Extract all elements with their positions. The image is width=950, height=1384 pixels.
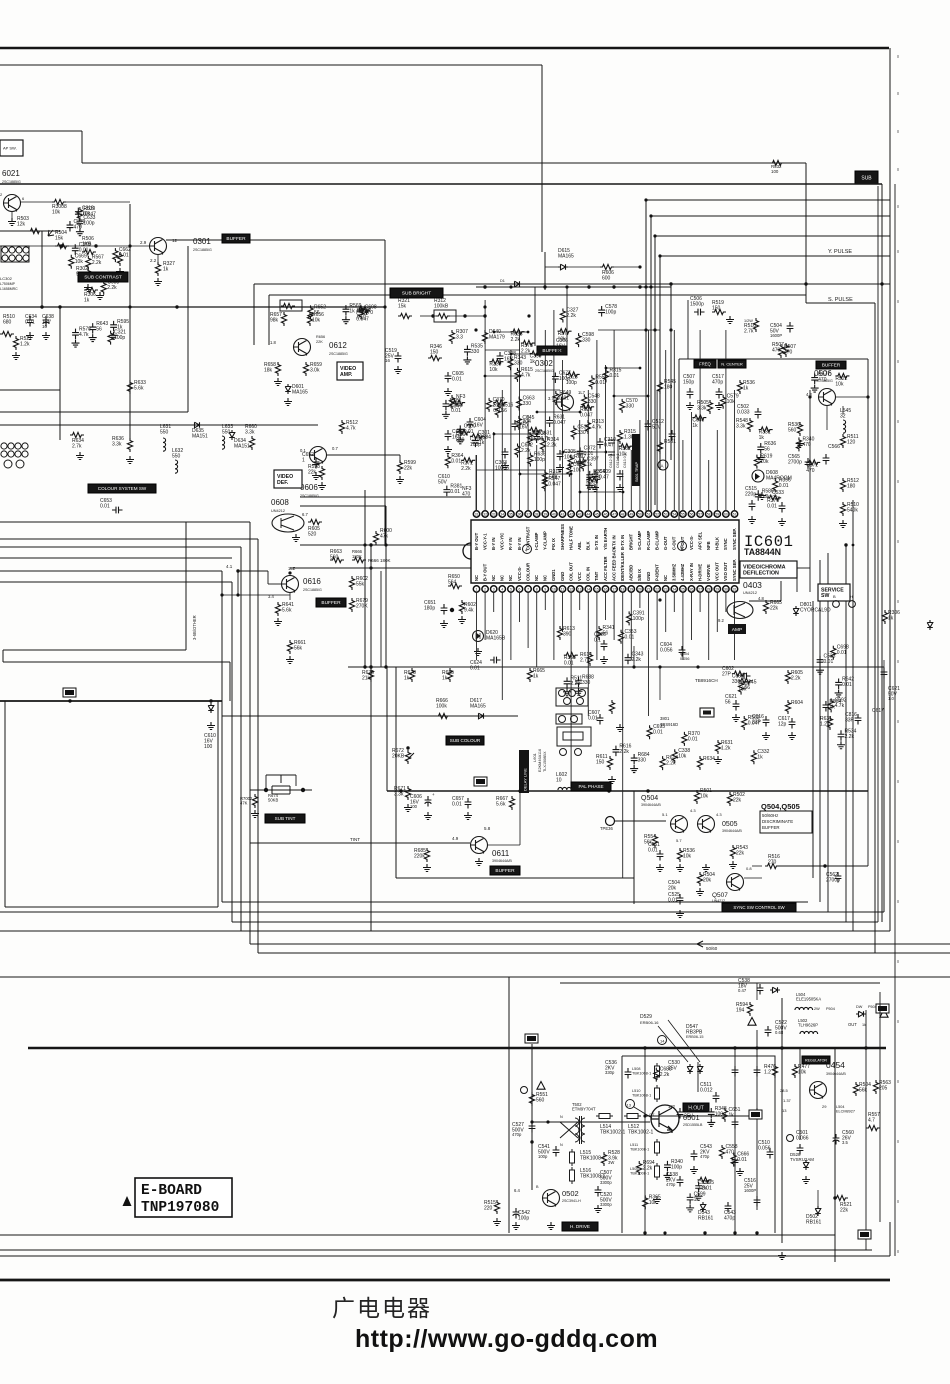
svg-text:31: 31 bbox=[475, 512, 479, 516]
resistor R302 bbox=[85, 268, 90, 282]
wire Q611 collector bbox=[488, 844, 520, 846]
resistor R633 bbox=[127, 380, 132, 394]
resistor R528 bbox=[601, 1152, 606, 1166]
junction bbox=[509, 285, 512, 288]
svg-text:TPE36: TPE36 bbox=[600, 826, 613, 831]
transformer T502 bbox=[560, 1116, 585, 1144]
svg-text:1000p: 1000p bbox=[495, 466, 509, 472]
resistor R370 bbox=[682, 732, 687, 746]
wire to x130 bbox=[66, 201, 130, 203]
wire Q616 base bbox=[268, 583, 281, 585]
capacitor C548 bbox=[677, 1108, 684, 1119]
wire x60 vertical bbox=[59, 307, 61, 440]
svg-text:36: 36 bbox=[518, 512, 522, 516]
svg-text:C804: C804 bbox=[680, 652, 689, 656]
inductor L631 bbox=[163, 438, 166, 451]
capacitor C638 bbox=[43, 316, 50, 327]
resistor R667 bbox=[509, 796, 514, 810]
resistor R364 bbox=[445, 454, 450, 468]
svg-text:1.2: 1.2 bbox=[764, 1070, 771, 1076]
junction bbox=[519, 375, 522, 378]
svg-text:33P: 33P bbox=[845, 718, 855, 724]
connector FF bbox=[876, 1004, 889, 1013]
svg-text:2.7k: 2.7k bbox=[744, 329, 754, 335]
svg-text:24: 24 bbox=[672, 587, 676, 591]
svg-text:D1: D1 bbox=[500, 279, 505, 283]
diode D610 bbox=[208, 703, 214, 713]
capacitor C816 bbox=[855, 714, 862, 725]
svg-text:4.1: 4.1 bbox=[226, 564, 233, 569]
svg-text:470: 470 bbox=[818, 377, 827, 383]
svg-text:270: 270 bbox=[768, 860, 777, 866]
svg-text:40: 40 bbox=[552, 512, 556, 516]
junction bbox=[483, 285, 486, 288]
capacitor C606 bbox=[445, 430, 452, 441]
ground C519 bbox=[394, 366, 402, 374]
svg-text:10k: 10k bbox=[558, 337, 567, 343]
wire y977 bus bbox=[0, 976, 950, 978]
svg-text:R666 180K: R666 180K bbox=[368, 558, 391, 563]
wire x385 vertical bbox=[384, 240, 386, 545]
svg-text:VCC: VCC bbox=[577, 572, 582, 581]
resistor R641 bbox=[275, 602, 280, 616]
capacitor C545 bbox=[732, 1118, 739, 1129]
svg-text:ERB06-16: ERB06-16 bbox=[640, 1020, 659, 1025]
wire y522 bus bbox=[0, 521, 250, 523]
label H OUT bbox=[683, 1103, 709, 1112]
junction bbox=[703, 1231, 706, 1234]
capacitor C652 bbox=[313, 458, 320, 469]
svg-text:330: 330 bbox=[471, 349, 480, 355]
resistor C663 bbox=[517, 397, 522, 411]
junction bbox=[384, 543, 387, 546]
capacitor C311 bbox=[617, 470, 624, 481]
svg-text:2SC1885/G: 2SC1885/G bbox=[300, 494, 319, 498]
svg-text:42: 42 bbox=[569, 512, 573, 516]
resistor R561 bbox=[657, 440, 662, 454]
junction bbox=[649, 285, 652, 288]
wire second bus bbox=[0, 64, 542, 66]
resistor C662 bbox=[113, 248, 118, 262]
resistor R636 bbox=[127, 438, 132, 452]
ground C533 bbox=[816, 667, 824, 675]
resistor R331 bbox=[759, 427, 773, 432]
wire y200 bus bbox=[646, 199, 890, 201]
svg-text:23: 23 bbox=[664, 587, 668, 591]
svg-text:18k: 18k bbox=[264, 368, 273, 374]
svg-text:10: 10 bbox=[42, 324, 48, 329]
ground R641 bbox=[274, 618, 282, 626]
svg-text:0.01: 0.01 bbox=[588, 716, 598, 722]
label VIDEO DEF bbox=[274, 470, 302, 488]
resistor R313 bbox=[493, 400, 507, 405]
capacitor C318 bbox=[75, 208, 82, 219]
ground R577 bbox=[811, 385, 819, 393]
resistor C687 bbox=[732, 671, 746, 676]
wire x846 vertical bbox=[845, 545, 847, 922]
circled mark C501 bbox=[787, 1135, 794, 1142]
resistor C629 bbox=[528, 427, 542, 432]
wire Q616 emitter bbox=[289, 593, 291, 600]
svg-text:COL OUT: COL OUT bbox=[568, 562, 573, 581]
svg-text:100p: 100p bbox=[671, 1164, 682, 1170]
svg-text:0.01: 0.01 bbox=[648, 848, 658, 854]
capacitor R616 bbox=[613, 746, 620, 757]
wire jungle link3 bbox=[485, 349, 520, 351]
svg-text:PIX IX: PIX IX bbox=[551, 538, 556, 550]
wire x3 stub bbox=[2, 650, 4, 662]
svg-text:2.2k: 2.2k bbox=[92, 260, 102, 266]
junction bbox=[780, 1046, 783, 1049]
junction bbox=[536, 433, 539, 436]
svg-text:43: 43 bbox=[578, 512, 582, 516]
resistor R614 bbox=[587, 652, 592, 666]
svg-text:150: 150 bbox=[430, 350, 439, 356]
svg-text:3.3k: 3.3k bbox=[394, 792, 404, 798]
svg-text:3904644A/B: 3904644A/B bbox=[826, 1072, 846, 1076]
capacitor C525 bbox=[677, 894, 684, 905]
svg-text:MA165: MA165 bbox=[292, 390, 308, 396]
capacitor R643 bbox=[89, 323, 96, 334]
resistor R521b bbox=[834, 1195, 848, 1200]
svg-text:4.43MHZ: 4.43MHZ bbox=[680, 563, 685, 581]
svg-text:2SC1885/G: 2SC1885/G bbox=[2, 180, 21, 184]
resistor R557 bbox=[866, 1125, 880, 1130]
svg-text:HALF TONE: HALF TONE bbox=[568, 526, 573, 550]
resistor R512 bbox=[339, 420, 344, 434]
svg-text:A: A bbox=[661, 464, 664, 469]
connector A bbox=[525, 1034, 538, 1043]
capacitor C519 bbox=[395, 352, 402, 363]
svg-text:0606: 0606 bbox=[300, 483, 318, 492]
svg-text:1k: 1k bbox=[84, 298, 90, 304]
svg-text:100p: 100p bbox=[83, 221, 94, 227]
inductor L545 bbox=[843, 420, 846, 433]
resistor C338 bbox=[672, 749, 677, 763]
svg-text:0.01: 0.01 bbox=[625, 634, 635, 640]
capacitor R554 bbox=[823, 701, 830, 712]
arrow mark bbox=[48, 230, 54, 236]
resistor R659 bbox=[303, 362, 308, 376]
svg-text:S. PULSE: S. PULSE bbox=[828, 297, 853, 303]
ground C372 bbox=[576, 458, 584, 466]
label VIDEO AMP bbox=[337, 362, 363, 380]
svg-text:52: 52 bbox=[655, 512, 659, 516]
resistor R506 bbox=[82, 249, 96, 254]
svg-text:http://www.go-gddq.com: http://www.go-gddq.com bbox=[355, 1325, 658, 1353]
wire y716 bbox=[222, 715, 518, 717]
IC U601 bottom pin name texts bbox=[474, 546, 737, 581]
resistor R665 bbox=[763, 600, 768, 614]
svg-text:59: 59 bbox=[715, 512, 719, 516]
svg-text:TBK1008-1: TBK1008-1 bbox=[632, 1093, 651, 1097]
resistor C548 bbox=[582, 394, 587, 408]
junction bbox=[658, 254, 661, 257]
ground C606 bbox=[444, 446, 452, 454]
ground R602b bbox=[458, 616, 466, 624]
svg-text:2SC1885/G: 2SC1885/G bbox=[193, 248, 212, 252]
svg-text:3.3k: 3.3k bbox=[112, 442, 122, 448]
resistor R604 bbox=[785, 700, 790, 714]
wire jungle link bbox=[606, 367, 640, 369]
resistor R310 bbox=[449, 395, 454, 409]
svg-text:4.8: 4.8 bbox=[758, 596, 764, 601]
junction bbox=[823, 864, 826, 867]
svg-text:100: 100 bbox=[204, 744, 213, 750]
svg-text:10k: 10k bbox=[683, 854, 692, 860]
resistor R355 bbox=[564, 653, 578, 658]
junction bbox=[866, 395, 869, 398]
svg-text:SUB BRIGHT: SUB BRIGHT bbox=[402, 291, 431, 297]
capacitor R586 bbox=[755, 490, 762, 501]
resistor C646 bbox=[692, 415, 706, 420]
svg-text:R-CLAMP: R-CLAMP bbox=[646, 530, 651, 550]
svg-text:BUFFER: BUFFER bbox=[226, 236, 246, 242]
svg-text:3.3k: 3.3k bbox=[697, 406, 707, 412]
svg-text:56: 56 bbox=[96, 327, 102, 333]
capacitor C511 bbox=[713, 1092, 720, 1103]
svg-text:14: 14 bbox=[660, 1039, 665, 1044]
connector F1 bbox=[474, 777, 487, 786]
svg-text:TA8844N: TA8844N bbox=[744, 547, 781, 557]
resistor R599 bbox=[397, 460, 402, 474]
wire y1235 bbox=[0, 1234, 835, 1236]
ground C606b bbox=[424, 812, 432, 820]
svg-text:10k: 10k bbox=[312, 318, 321, 324]
svg-text:N: N bbox=[560, 1115, 563, 1119]
svg-text:RB161: RB161 bbox=[698, 1216, 714, 1222]
label PAL PHASE bbox=[571, 782, 611, 791]
svg-text:V-DRIVE: V-DRIVE bbox=[706, 564, 711, 581]
capacitor C606b bbox=[425, 796, 432, 807]
svg-text:1k: 1k bbox=[530, 359, 536, 365]
svg-text:BLK: BLK bbox=[586, 541, 591, 550]
capacitor C515 bbox=[749, 500, 756, 511]
svg-text:VCC-Y-1: VCC-Y-1 bbox=[482, 533, 487, 550]
svg-text:BUFFER: BUFFER bbox=[822, 363, 841, 368]
diode D608 circled bbox=[752, 470, 764, 482]
wire y902 bus bbox=[222, 901, 808, 903]
capacitor R578 bbox=[72, 329, 79, 340]
svg-text:2SC1885/G: 2SC1885/G bbox=[329, 352, 348, 356]
wire y545 bus bbox=[300, 544, 471, 546]
resistor R339 bbox=[489, 359, 503, 364]
ground C605 bbox=[444, 388, 452, 396]
svg-text:3300p: 3300p bbox=[600, 1202, 612, 1207]
wire x735 vertical bbox=[734, 1048, 736, 1233]
svg-text:MA151: MA151 bbox=[192, 434, 208, 440]
wire y547 bus bbox=[0, 546, 241, 548]
svg-text:NFB: NFB bbox=[706, 541, 711, 550]
resistor C598 bbox=[576, 333, 581, 347]
warning triangle P504 bbox=[880, 1010, 888, 1018]
svg-text:35: 35 bbox=[509, 512, 513, 516]
resistor R305 bbox=[117, 252, 122, 266]
svg-text:47: 47 bbox=[612, 512, 616, 516]
svg-text:TBK1008-1: TBK1008-1 bbox=[632, 1071, 651, 1075]
junction bbox=[369, 665, 372, 668]
junction bbox=[780, 1046, 783, 1049]
svg-text:2: 2 bbox=[484, 587, 486, 591]
svg-text:SYNC SW CONTROL SW: SYNC SW CONTROL SW bbox=[733, 905, 785, 910]
junction bbox=[474, 328, 477, 331]
resistor R685c bbox=[424, 848, 429, 862]
svg-text:37: 37 bbox=[526, 512, 530, 516]
junction bbox=[58, 305, 61, 308]
svg-text:GND: GND bbox=[646, 572, 651, 581]
junction bbox=[643, 1046, 646, 1049]
capacitor C543b bbox=[691, 1150, 698, 1161]
capacitor C546 bbox=[732, 1156, 739, 1167]
svg-text:B-Y OUT: B-Y OUT bbox=[474, 532, 479, 550]
wire bbox=[614, 266, 640, 268]
page edge marks bbox=[897, 55, 899, 1253]
svg-text:ACC FEED BACK: ACC FEED BACK bbox=[611, 546, 616, 581]
svg-text:BRIGHT: BRIGHT bbox=[629, 534, 634, 550]
svg-text:2.2k: 2.2k bbox=[791, 676, 801, 682]
wire y163 bus bbox=[82, 162, 806, 164]
svg-text:UN4212: UN4212 bbox=[743, 591, 757, 595]
wire x875 vertical bbox=[874, 303, 876, 953]
svg-text:AMP.: AMP. bbox=[340, 372, 353, 378]
ground C638 bbox=[42, 332, 50, 340]
ground R543 bbox=[729, 861, 737, 869]
svg-text:330: 330 bbox=[593, 474, 602, 480]
inductor bead row L302 bbox=[1, 246, 29, 262]
capacitor C541 bbox=[553, 1146, 560, 1157]
capacitor C305 bbox=[557, 450, 564, 461]
svg-text:58: 58 bbox=[707, 512, 711, 516]
resistor R602 bbox=[349, 576, 354, 590]
ground C657 bbox=[464, 812, 472, 820]
wire bbox=[420, 315, 436, 317]
wire jungle link bbox=[614, 395, 648, 397]
wire bbox=[752, 865, 762, 867]
label FREQ bbox=[694, 360, 716, 368]
ground C626 bbox=[600, 656, 608, 664]
wire jungle link bbox=[485, 375, 520, 377]
svg-text:22: 22 bbox=[655, 587, 659, 591]
svg-text:MA165: MA165 bbox=[470, 704, 486, 710]
ground R595 bbox=[110, 332, 118, 340]
resistor R657 bbox=[281, 303, 295, 308]
svg-text:10: 10 bbox=[556, 778, 562, 784]
label H DRIVE bbox=[562, 1222, 598, 1231]
junction bbox=[483, 314, 486, 317]
ground Q021 bbox=[8, 218, 16, 226]
capacitor C536 bbox=[625, 1068, 632, 1079]
svg-text:470: 470 bbox=[462, 492, 471, 498]
svg-text:26: 26 bbox=[690, 587, 694, 591]
svg-text:SUB TINT: SUB TINT bbox=[275, 816, 296, 821]
svg-text:2.2k: 2.2k bbox=[660, 1072, 670, 1078]
diode P504 bbox=[856, 1011, 866, 1017]
ground R535 bbox=[463, 356, 471, 364]
resistor R309 bbox=[527, 432, 532, 446]
capacitor R511 bbox=[564, 677, 571, 688]
circled mark A2 bbox=[658, 460, 668, 470]
svg-text:22k: 22k bbox=[733, 798, 742, 804]
svg-text:10k: 10k bbox=[760, 459, 769, 465]
svg-text:0.01: 0.01 bbox=[824, 659, 834, 665]
ground C517 bbox=[715, 402, 723, 410]
resistor R536c bbox=[677, 848, 682, 862]
ground R631 bbox=[714, 756, 722, 764]
box H-OUT section outline bbox=[622, 1056, 775, 1233]
junction bbox=[536, 411, 539, 414]
wire x828 vertical bbox=[827, 553, 829, 912]
svg-text:2.2k: 2.2k bbox=[566, 313, 576, 319]
wire jungle link bbox=[494, 433, 537, 435]
svg-text:9.4k: 9.4k bbox=[464, 608, 474, 614]
svg-text:B: B bbox=[833, 594, 836, 599]
svg-text:0608: 0608 bbox=[271, 498, 289, 507]
diode D634 bbox=[229, 430, 235, 440]
svg-text:1L7: 1L7 bbox=[578, 390, 586, 395]
svg-text:470p: 470p bbox=[666, 1182, 676, 1187]
svg-text:IDENT/KILLER: IDENT/KILLER bbox=[620, 552, 625, 581]
svg-text:18: 18 bbox=[621, 587, 625, 591]
capacitor C653 bbox=[112, 507, 123, 514]
wire x258 vertical bbox=[257, 539, 259, 953]
svg-text:22K: 22K bbox=[316, 340, 323, 344]
svg-text:1k: 1k bbox=[117, 324, 123, 330]
svg-text:50/60Hz: 50/60Hz bbox=[762, 813, 778, 818]
svg-text:5.6k: 5.6k bbox=[496, 802, 506, 808]
resistor C572 bbox=[806, 460, 820, 465]
svg-text:1k: 1k bbox=[442, 676, 448, 682]
svg-text:57: 57 bbox=[698, 512, 702, 516]
junction bbox=[880, 282, 883, 285]
svg-text:Y-CLAMP: Y-CLAMP bbox=[543, 531, 548, 550]
resistor R512 bbox=[840, 478, 845, 492]
ground R534 bbox=[837, 741, 845, 749]
ground Q611 bbox=[475, 858, 483, 866]
capacitor C543 bbox=[725, 1202, 732, 1213]
resistor R519 bbox=[712, 309, 726, 314]
svg-text:B-Y IN: B-Y IN bbox=[491, 538, 496, 551]
transistor Q504 bbox=[671, 816, 688, 833]
diode D543 bbox=[700, 1202, 706, 1212]
junction bbox=[369, 566, 372, 569]
capacitor R595 bbox=[110, 321, 117, 332]
svg-text:550: 550 bbox=[172, 454, 181, 460]
svg-text:0.01: 0.01 bbox=[451, 459, 461, 465]
svg-text:3.58MHZ: 3.58MHZ bbox=[672, 563, 677, 581]
svg-text:470p: 470p bbox=[700, 1154, 710, 1159]
wire bbox=[796, 561, 798, 592]
svg-text:DELAY LINE: DELAY LINE bbox=[523, 768, 528, 791]
capacitor C506 bbox=[694, 309, 705, 316]
svg-text:0.01: 0.01 bbox=[668, 898, 678, 904]
resistor R577 bbox=[558, 329, 572, 334]
resistor R308 bbox=[482, 330, 487, 344]
wire y497 bbox=[300, 496, 471, 498]
ground C651 bbox=[440, 620, 448, 628]
IC U601 top pin wires bbox=[477, 300, 735, 511]
svg-text:50/60: 50/60 bbox=[706, 946, 718, 951]
svg-text:Q504,Q505: Q504,Q505 bbox=[761, 802, 800, 811]
resistor R536 bbox=[797, 422, 802, 436]
resistor R634b bbox=[697, 756, 702, 770]
capacitor C548b bbox=[754, 1108, 761, 1119]
svg-text:60: 60 bbox=[724, 512, 728, 516]
capacitor C623 bbox=[881, 668, 888, 679]
junction bbox=[519, 473, 522, 476]
wire y983 bbox=[560, 982, 880, 984]
svg-text:56k: 56k bbox=[859, 1088, 868, 1094]
svg-text:22k: 22k bbox=[404, 466, 413, 472]
